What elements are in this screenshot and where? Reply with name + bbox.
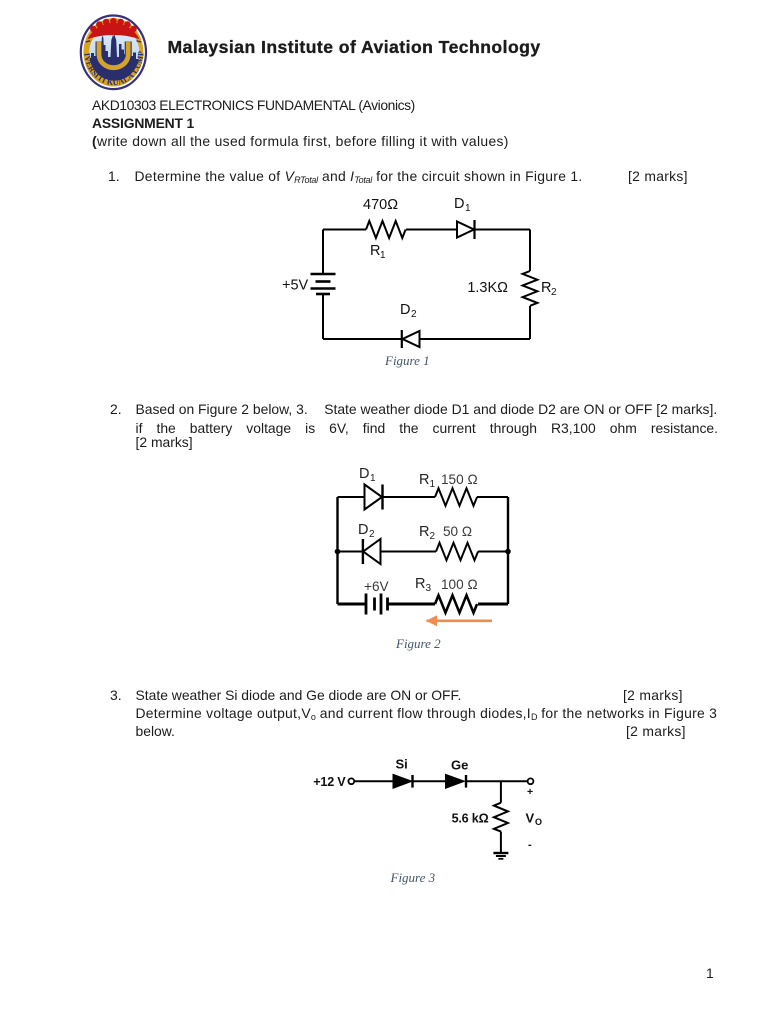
svg-text:O: O xyxy=(535,817,542,827)
svg-text:2: 2 xyxy=(430,531,436,542)
svg-text:150 Ω: 150 Ω xyxy=(441,472,478,487)
svg-text:R: R xyxy=(541,280,551,296)
svg-text:R: R xyxy=(419,524,429,540)
svg-text:5.6 kΩ: 5.6 kΩ xyxy=(452,811,489,825)
svg-text:Ge: Ge xyxy=(451,758,468,773)
svg-text:Si: Si xyxy=(396,757,408,772)
svg-text:3: 3 xyxy=(426,583,432,594)
svg-text:R: R xyxy=(370,243,380,259)
svg-text:2: 2 xyxy=(551,287,557,298)
svg-text:D: D xyxy=(400,302,410,318)
svg-text:2: 2 xyxy=(411,309,417,320)
svg-text:1: 1 xyxy=(430,479,436,490)
svg-text:50 Ω: 50 Ω xyxy=(443,524,472,539)
svg-text:1.3KΩ: 1.3KΩ xyxy=(467,280,508,296)
svg-text:D: D xyxy=(359,466,369,482)
svg-text:R: R xyxy=(419,472,429,488)
svg-text:D: D xyxy=(358,522,368,538)
svg-text:R: R xyxy=(415,576,425,592)
svg-text:-: - xyxy=(528,839,532,851)
svg-text:1: 1 xyxy=(380,250,386,261)
svg-text:+: + xyxy=(527,786,533,798)
svg-text:V: V xyxy=(526,811,535,826)
svg-text:1: 1 xyxy=(465,203,471,214)
svg-text:+12 V: +12 V xyxy=(313,775,346,789)
svg-text:1: 1 xyxy=(370,473,376,484)
svg-text:470Ω: 470Ω xyxy=(363,197,398,213)
svg-text:+5V: +5V xyxy=(282,278,309,294)
svg-text:2: 2 xyxy=(369,529,375,540)
svg-text:D: D xyxy=(454,196,464,212)
svg-text:+6V: +6V xyxy=(364,579,389,594)
svg-text:100 Ω: 100 Ω xyxy=(441,577,478,592)
